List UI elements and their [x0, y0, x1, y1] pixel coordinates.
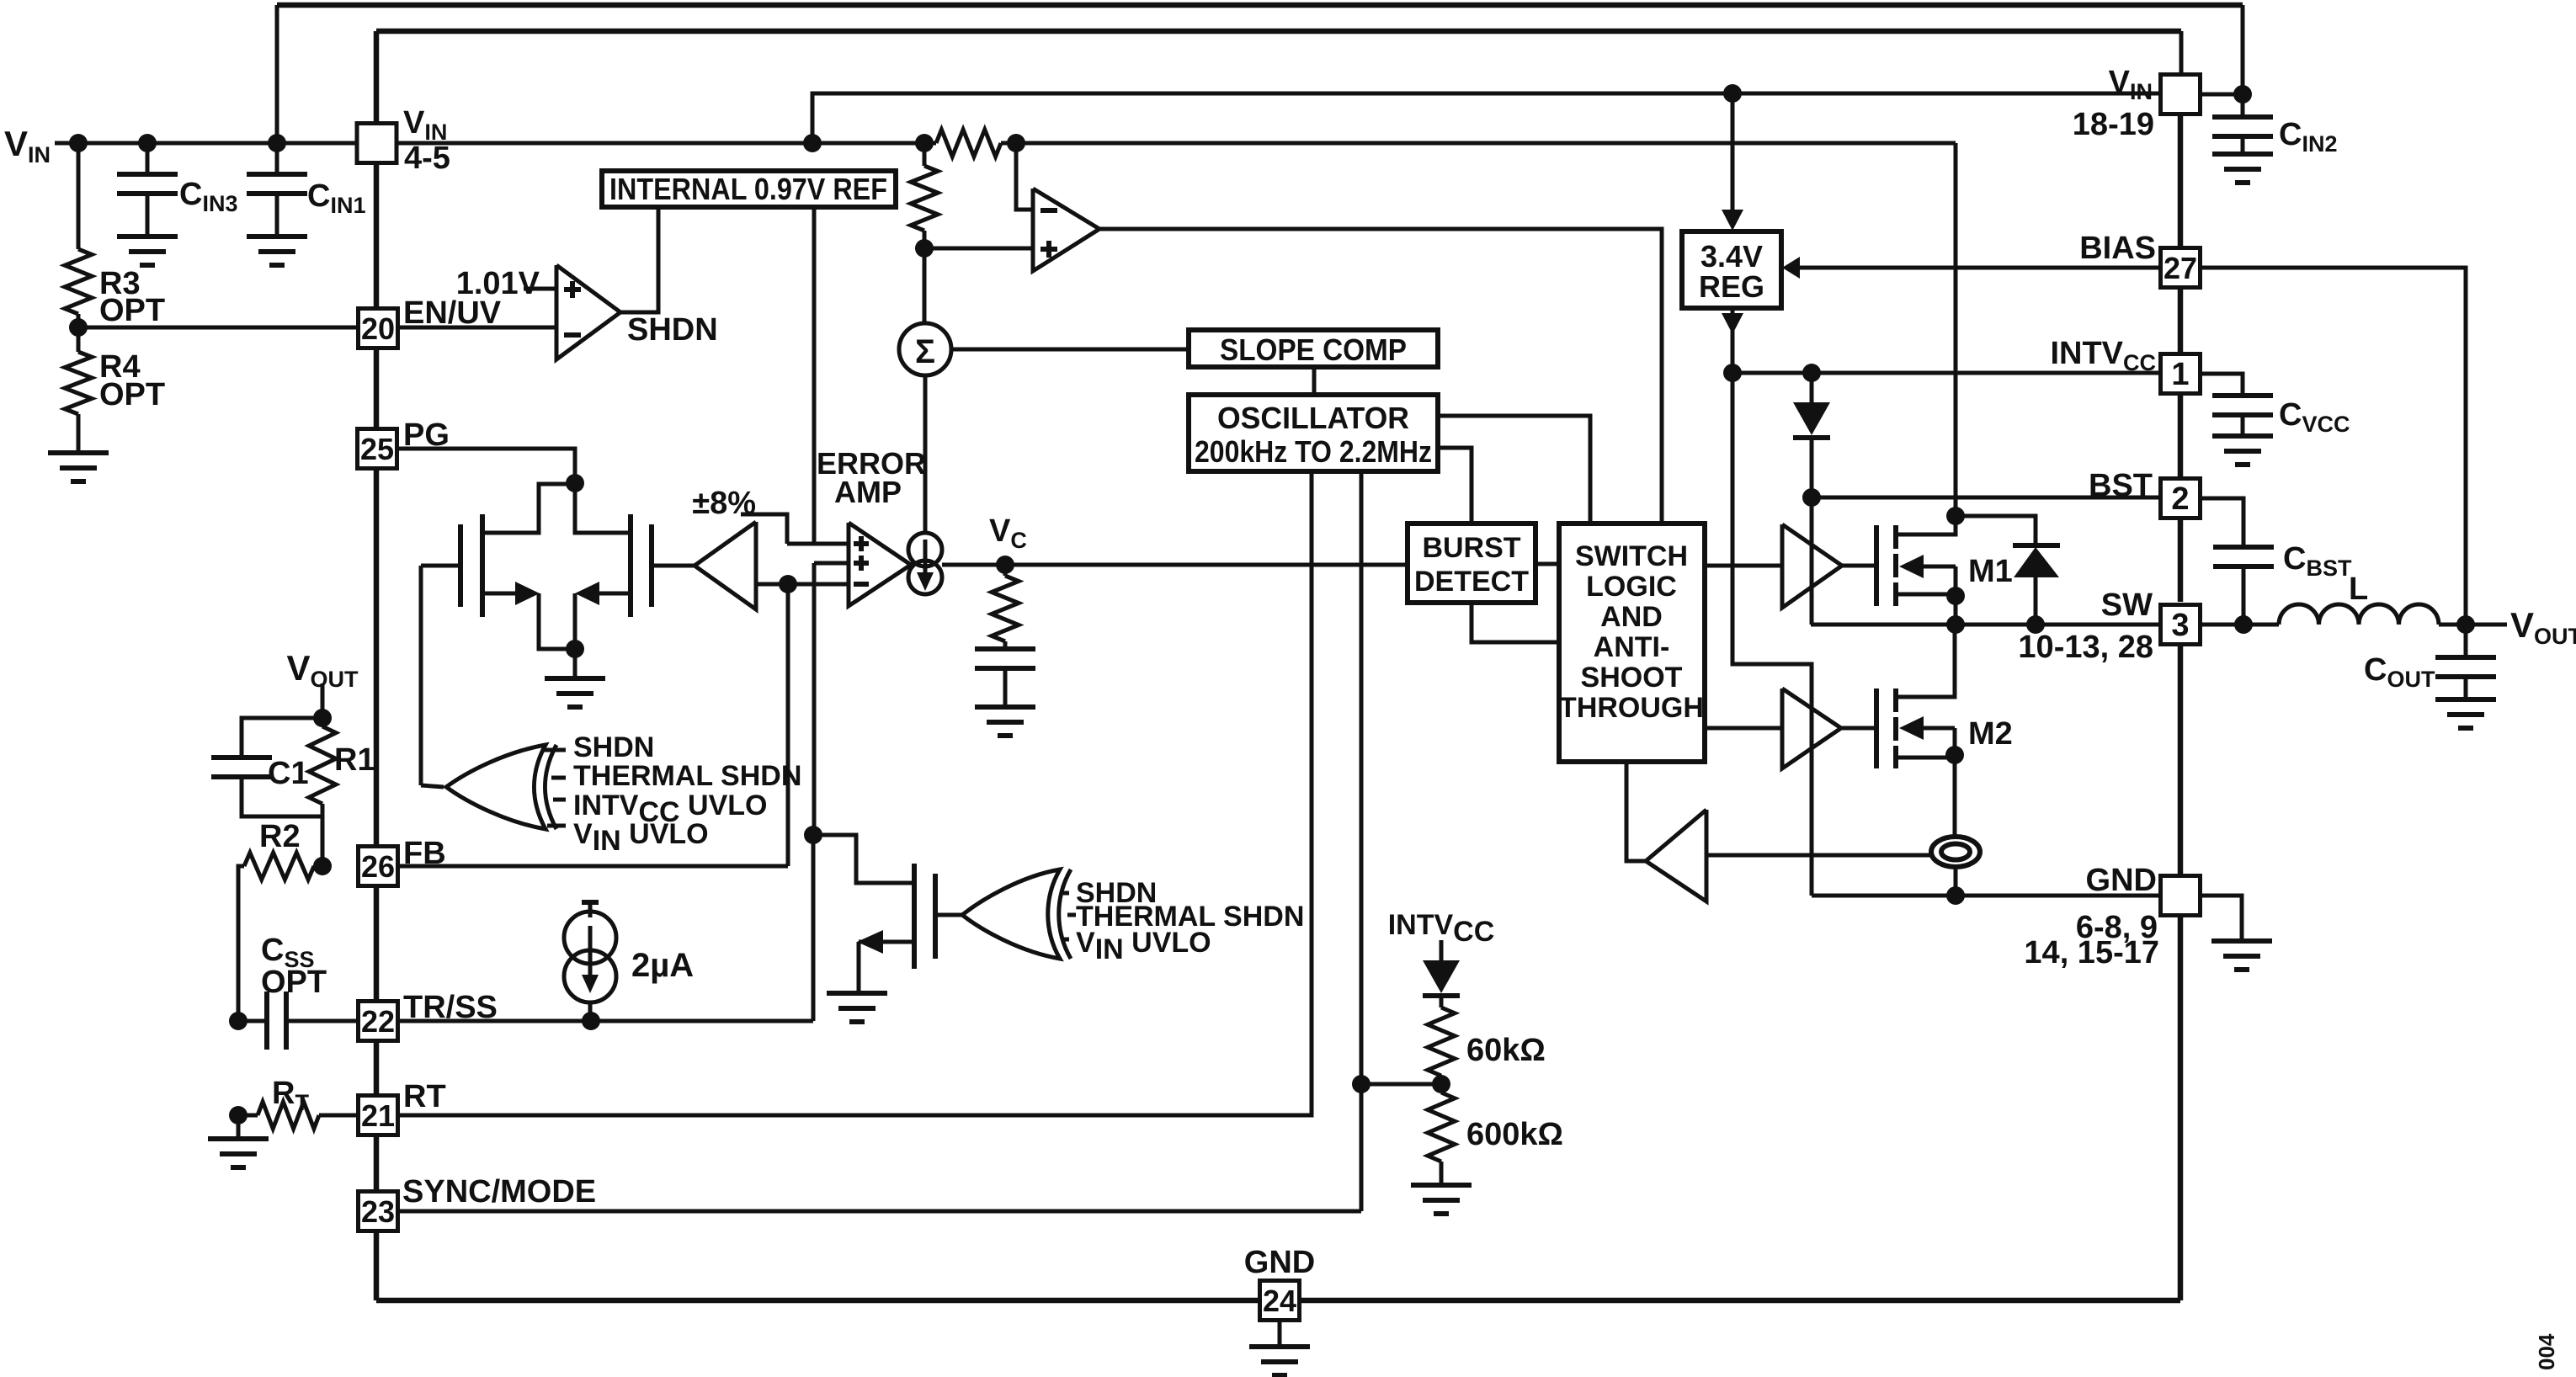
svg-text:22: 22: [361, 1004, 395, 1039]
transistor Q1 PG pull FET left: [458, 524, 463, 607]
svg-text:1.01V: 1.01V: [456, 266, 540, 301]
wire BIAS to VOUT: [2201, 268, 2466, 625]
svg-text:18-19: 18-19: [2073, 107, 2154, 142]
node EN/UV junction: [77, 314, 81, 352]
wire VIN to right VIN pin rail: [812, 93, 2161, 143]
ground under R4: [77, 414, 81, 453]
svg-text:600kΩ: 600kΩ: [1466, 1117, 1563, 1152]
wire BIAS to REG: [1800, 266, 2161, 270]
wire SW external: [2201, 623, 2279, 627]
svg-text:23: 23: [361, 1194, 395, 1229]
svg-text:SWITCH: SWITCH: [1575, 540, 1688, 572]
resistor 600k: [1440, 1084, 1444, 1093]
svg-text:INTERNAL 0.97V REF: INTERNAL 0.97V REF: [609, 172, 887, 206]
pin VIN 18-19: [2161, 75, 2201, 114]
wire IC left boundary: [374, 163, 380, 308]
wire GND rail: [1812, 894, 2161, 898]
pin BST 2: [2161, 479, 2201, 518]
block BURST DETECT: [1408, 524, 1535, 603]
resistor RT: [229, 1106, 247, 1124]
resistor VC: [1003, 565, 1008, 576]
pin EN/UV 20: [359, 309, 398, 348]
block INTERNAL 0.97V REF: [602, 171, 896, 207]
svg-text:20: 20: [361, 311, 395, 346]
resistor sense vertical: [923, 143, 927, 166]
svg-text:1: 1: [2171, 357, 2189, 392]
svg-text:2µA: 2µA: [631, 947, 694, 984]
svg-text:3.4V: 3.4V: [1700, 239, 1763, 274]
wire IC top boundary: [376, 29, 2181, 35]
svg-text:26: 26: [361, 849, 395, 884]
wire top rail: [277, 3, 2243, 8]
resistor 60k: [1440, 996, 1444, 1007]
wire IC right boundary: [2178, 114, 2184, 248]
svg-text:RT: RT: [403, 1079, 446, 1114]
wire BST rail: [1812, 496, 2161, 500]
svg-text:AMP: AMP: [834, 475, 902, 509]
svg-text:OPT: OPT: [261, 965, 327, 1000]
pin RT 21: [359, 1096, 398, 1135]
svg-text:SLOPE COMP: SLOPE COMP: [1220, 332, 1407, 367]
resistor R4: [65, 352, 92, 414]
capacitor CIN1: [275, 143, 279, 174]
transistor M2: [1874, 688, 1879, 768]
current source 2uA: [582, 900, 599, 905]
capacitor C1: [242, 718, 322, 758]
block SWITCH LOGIC AND ANTI-SHOOT THROUGH: [1559, 524, 1705, 762]
svg-text:200kHz TO 2.2MHz: 200kHz TO 2.2MHz: [1195, 434, 1432, 469]
svg-text:L: L: [2349, 572, 2368, 607]
wire INTVCC rail: [1723, 364, 1742, 382]
wire SW rail: [1811, 623, 2161, 627]
wire plus-minus 8 percent tap: [741, 514, 787, 544]
svg-text:GND: GND: [2086, 863, 2157, 898]
buffer driver top: [1705, 564, 1782, 568]
diode D2 INTVCC: [1423, 960, 1460, 993]
svg-text:2: 2: [2171, 481, 2189, 517]
wire oscillator to RT pin: [398, 471, 1312, 1115]
wire FB: [398, 864, 788, 869]
svg-text:SHOOT: SHOOT: [1581, 662, 1683, 694]
ground COUT: [2435, 699, 2496, 728]
capacitor VC: [975, 649, 1035, 668]
pin SW 3: [2161, 605, 2201, 645]
wire SYNC/MODE: [398, 1210, 1361, 1214]
svg-text:±8%: ±8%: [692, 486, 756, 521]
pin INTVCC 1: [2161, 354, 2201, 394]
svg-text:THERMAL SHDN: THERMAL SHDN: [573, 760, 801, 792]
svg-text:004: 004: [2534, 1333, 2559, 1370]
capacitor COUT: [2464, 625, 2468, 657]
svg-text:27: 27: [2164, 251, 2197, 285]
svg-text:C1: C1: [268, 756, 309, 791]
svg-text:REG: REG: [1699, 269, 1764, 304]
ground CIN2: [2212, 154, 2273, 183]
transistor Q3 soft start clamp: [912, 864, 917, 969]
svg-text:ANTI-: ANTI-: [1594, 631, 1670, 663]
wire TR/SS: [398, 1019, 813, 1023]
svg-text:GND: GND: [1244, 1245, 1315, 1280]
buffer plus-minus 8 percent: [695, 522, 756, 609]
svg-text:4-5: 4-5: [404, 141, 450, 176]
pin TR/SS 22: [359, 1002, 398, 1041]
wire VIN internal rail: [397, 141, 936, 146]
wire FB to error amp minus: [756, 582, 849, 587]
svg-text:25: 25: [360, 432, 394, 466]
capacitor CSS OPT: [229, 1012, 247, 1030]
wire oscillator to sync/mode: [1360, 471, 1364, 1211]
wire INTVCC to driver return: [1732, 373, 1812, 896]
wire oscillator to burst detect: [1438, 448, 1472, 524]
wire VIN input: [55, 141, 357, 146]
svg-text:10-13, 28: 10-13, 28: [2018, 630, 2153, 665]
diode D1 body: [1956, 516, 2036, 547]
svg-text:BST: BST: [2089, 468, 2153, 503]
resistor R3: [77, 143, 81, 249]
resistor R1: [321, 718, 325, 726]
wire EN/UV: [78, 326, 357, 330]
svg-text:THROUGH: THROUGH: [1559, 692, 1704, 724]
resistor R2: [313, 857, 332, 875]
pin VIN 4-5: [357, 124, 397, 163]
block 3.4V REG: [1731, 93, 1735, 210]
wire current comparator output to switch logic: [1099, 229, 1662, 524]
pin FB 26: [359, 847, 398, 886]
pin BIAS 27: [2161, 248, 2201, 288]
pin GND 24: [1260, 1281, 1300, 1321]
svg-text:BIAS: BIAS: [2079, 231, 2156, 266]
svg-text:DETECT: DETECT: [1414, 566, 1529, 598]
buffer feedback to switch logic: [1706, 853, 1931, 858]
pin GND 6-8: [2161, 876, 2201, 916]
ground RT: [237, 1115, 241, 1139]
wire divider mid: [1432, 1075, 1450, 1093]
svg-text:SHDN: SHDN: [627, 312, 718, 348]
ground clamp FET: [827, 993, 887, 1022]
svg-text:SW: SW: [2101, 587, 2153, 623]
svg-text:BURST: BURST: [1422, 532, 1520, 564]
svg-text:M1: M1: [1968, 554, 2013, 589]
svg-text:Σ: Σ: [915, 333, 935, 370]
svg-text:24: 24: [1263, 1284, 1296, 1318]
wire reference to error amp input: [812, 207, 817, 544]
svg-text:M2: M2: [1968, 716, 2013, 752]
svg-text:OPT: OPT: [99, 293, 165, 328]
transistor M1: [1874, 525, 1879, 606]
svg-text:R2: R2: [259, 819, 301, 854]
gate OR PG fault (SHDN/THERMAL/UVLO): [419, 566, 423, 785]
svg-text:AND: AND: [1600, 601, 1663, 633]
svg-text:3: 3: [2171, 608, 2189, 643]
svg-text:SYNC/MODE: SYNC/MODE: [402, 1174, 596, 1210]
ground under CIN1: [247, 237, 307, 265]
ground GND24: [1278, 1321, 1282, 1347]
buffer driver bottom: [1705, 726, 1782, 731]
wire to sigma: [923, 248, 927, 323]
transistor Q2 PG pull FET right: [628, 514, 633, 617]
ground GND pin: [2201, 896, 2242, 941]
current source error amp output: [908, 533, 942, 566]
svg-text:LOGIC: LOGIC: [1586, 571, 1677, 603]
svg-text:SHDN: SHDN: [573, 731, 654, 763]
svg-text:OPT: OPT: [99, 377, 165, 412]
inductor L: [2279, 604, 2439, 625]
wire oscillator to switch logic: [1438, 416, 1590, 524]
wire soft start clamp input: [814, 561, 849, 566]
pin PG 25: [358, 429, 397, 469]
wire burst detect bottom: [1472, 603, 1559, 642]
pin SYNC/MODE 23: [359, 1192, 398, 1231]
svg-text:OSCILLATOR: OSCILLATOR: [1217, 401, 1409, 435]
ground under CIN3: [117, 237, 178, 265]
resistor sense top: [936, 130, 1001, 157]
wire SHDN comparator output to reference: [620, 207, 658, 312]
node VC: [942, 563, 1408, 567]
ground PG FET source: [573, 649, 577, 678]
wire M1 drain to VIN rail: [1954, 143, 1958, 516]
block SLOPE COMP: [951, 348, 1189, 352]
svg-text:21: 21: [361, 1098, 395, 1133]
ground CVCC: [2212, 436, 2273, 465]
op-amp U2 current comparator: [1016, 143, 1033, 210]
svg-text:R1: R1: [334, 742, 375, 778]
wire OR gate inputs: [543, 748, 566, 752]
gate XOR clamp fault (SHDN/THERMAL/VIN UVLO): [962, 869, 1060, 959]
svg-text:14, 15-17: 14, 15-17: [2024, 935, 2159, 970]
wire PG: [397, 449, 575, 483]
svg-text:60kΩ: 60kΩ: [1466, 1033, 1546, 1068]
capacitor CVCC: [2201, 374, 2243, 396]
current sense bubble: [1953, 758, 1957, 837]
block OSCILLATOR: [1312, 367, 1317, 395]
capacitor CIN2: [2201, 93, 2243, 97]
op-amp U1 shutdown comparator: [556, 265, 620, 359]
capacitor CBST: [2201, 498, 2243, 547]
wire TR/SS to clamp: [812, 835, 816, 1021]
node sigma summer: [899, 323, 951, 375]
capacitor CIN3: [146, 143, 150, 174]
diode D3 boost charge: [1810, 373, 1814, 402]
ground divider: [1411, 1185, 1472, 1214]
ground VC: [975, 707, 1035, 736]
wire IC bottom boundary: [376, 1298, 2180, 1304]
